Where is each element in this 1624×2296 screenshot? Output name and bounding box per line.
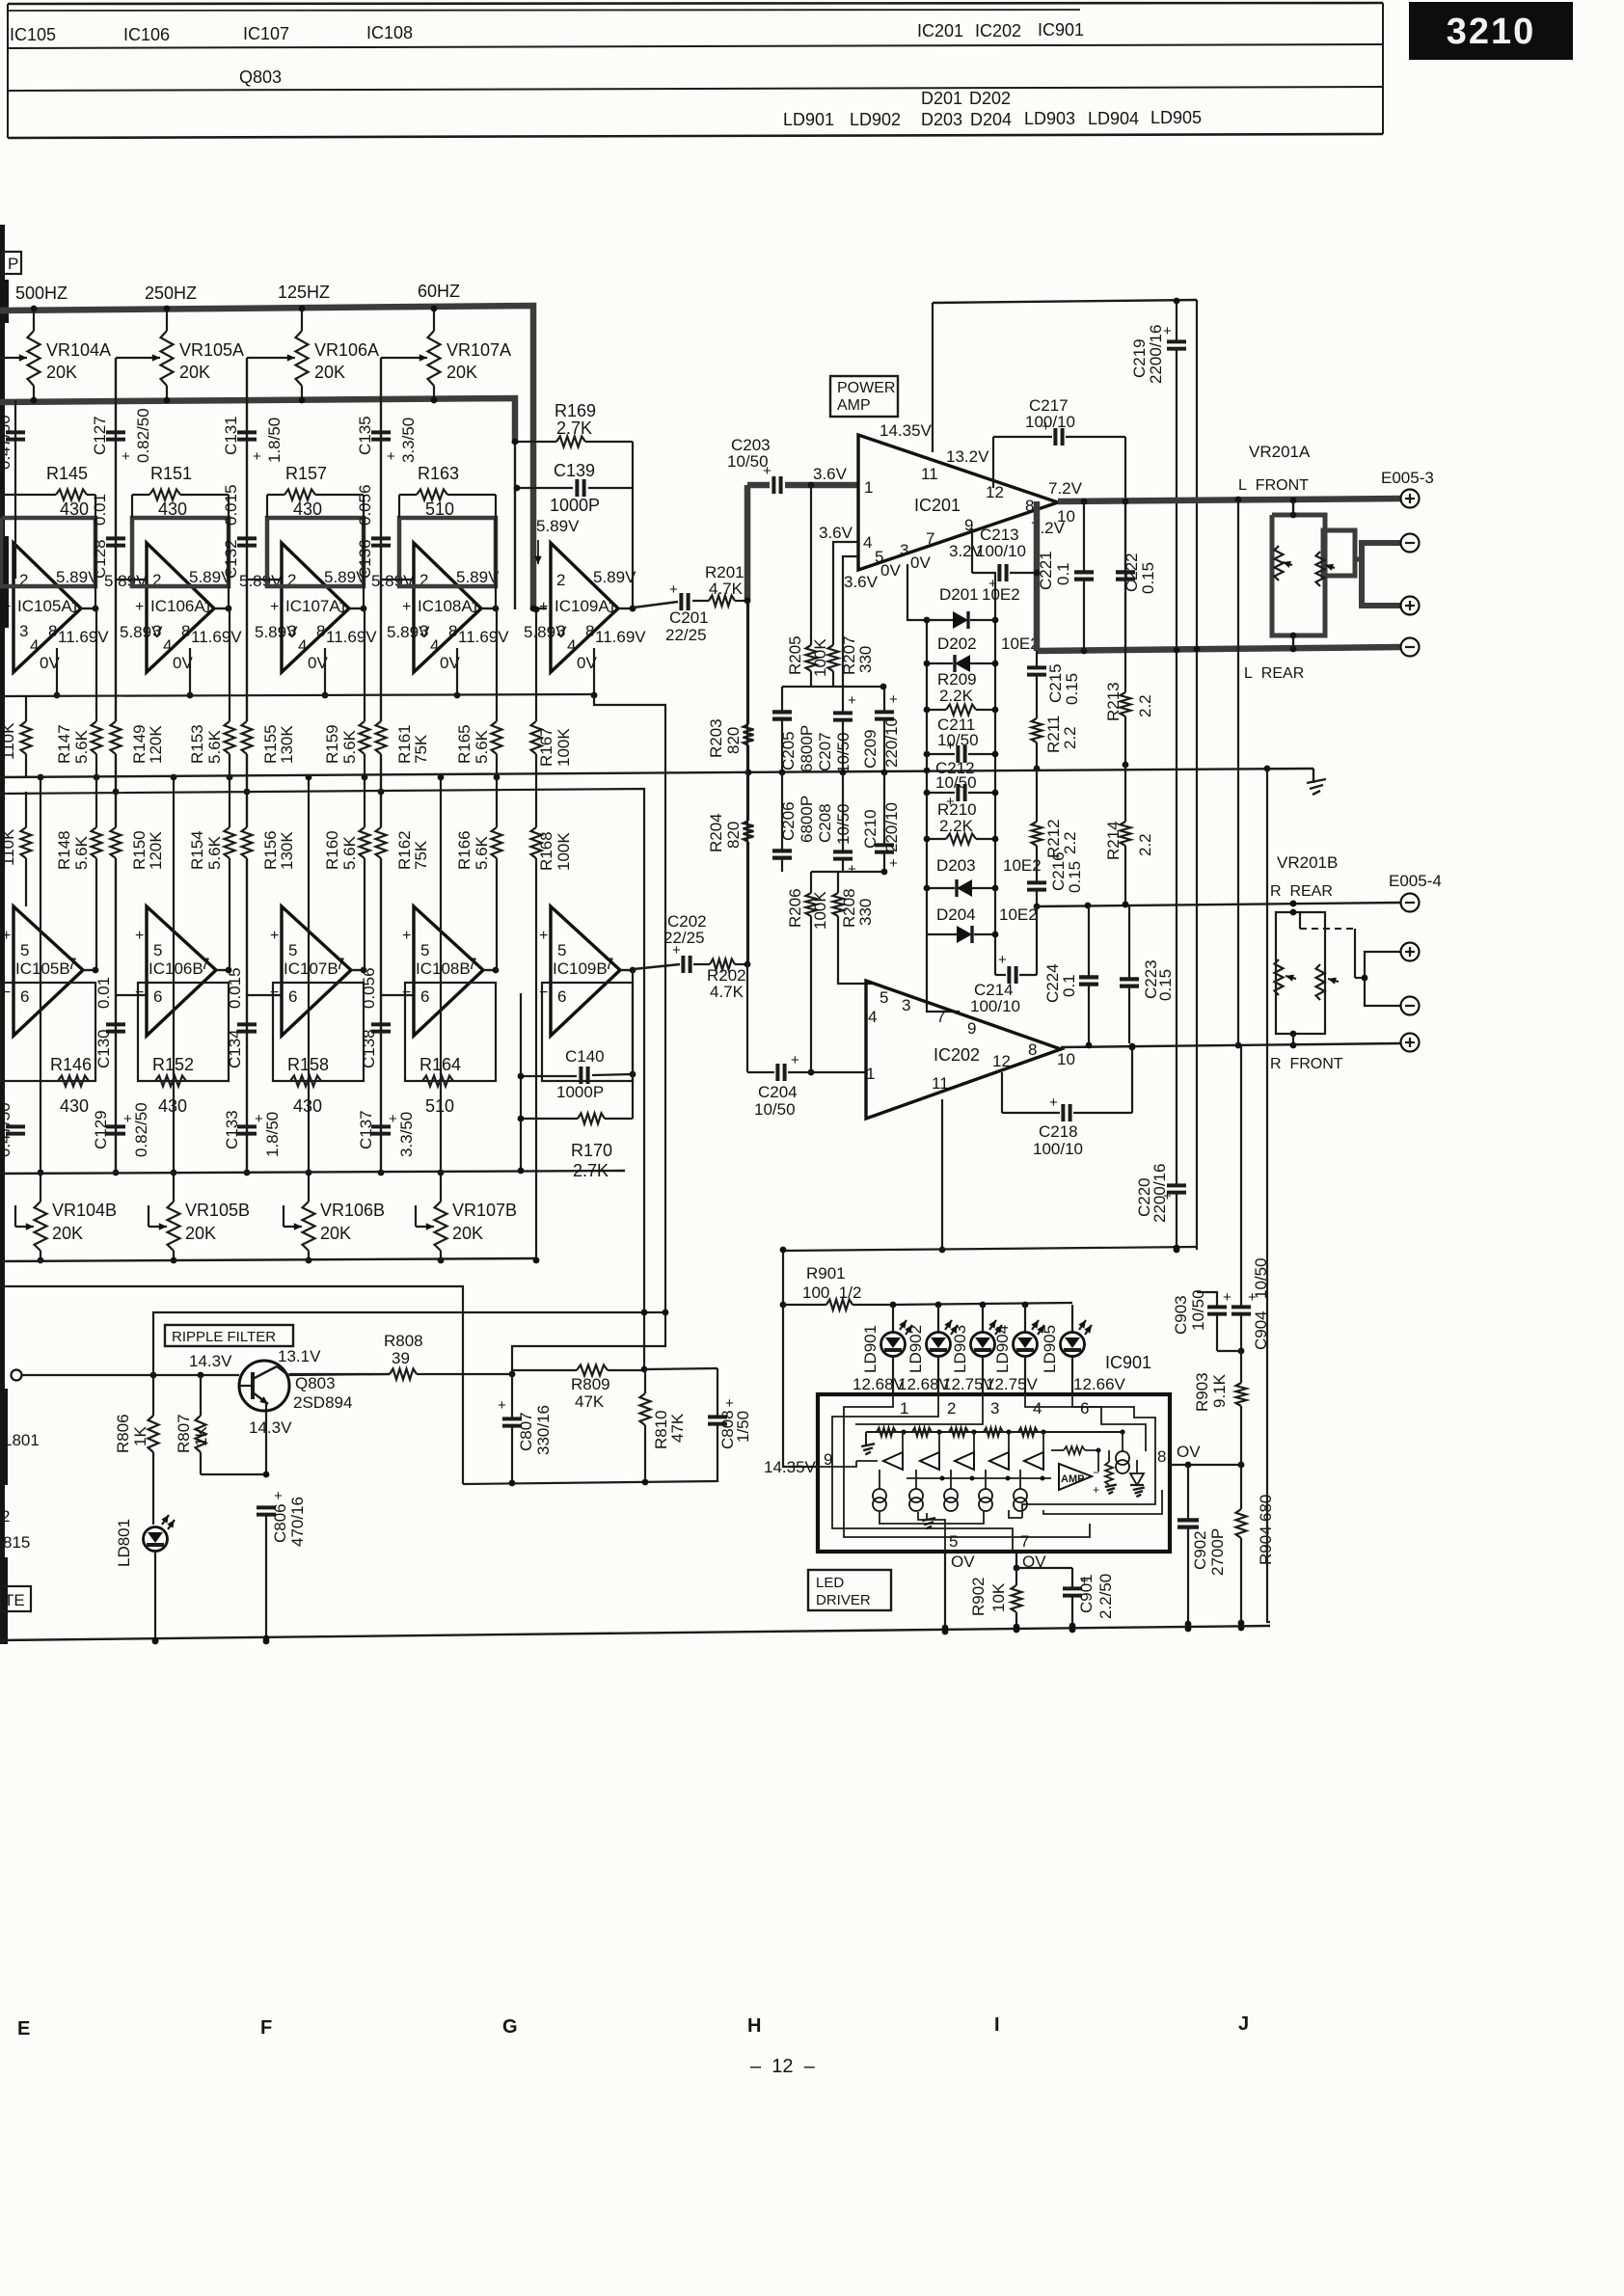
label IC202 — [934, 1045, 980, 1065]
svg-text:C131: C131 — [222, 416, 240, 455]
svg-text:1.8/50: 1.8/50 — [265, 418, 284, 463]
label C127 — [91, 408, 152, 463]
label C135 — [356, 416, 418, 463]
potentiometer VR106B — [303, 1170, 315, 1264]
label C902 — [1191, 1528, 1227, 1576]
svg-text:20K: 20K — [447, 363, 477, 382]
svg-text:20K: 20K — [52, 1224, 83, 1243]
label C137 — [357, 1110, 416, 1157]
potentiometer VR105A — [161, 306, 174, 404]
wire: LED anode bus — [890, 1302, 1072, 1309]
label C215 — [1046, 663, 1081, 705]
svg-text:+: + — [253, 448, 261, 465]
capacitor C213 — [972, 564, 1040, 592]
capacitor C808 — [708, 1368, 734, 1482]
svg-text:10/50: 10/50 — [937, 731, 979, 749]
svg-text:5: 5 — [153, 941, 162, 959]
label IC107 — [243, 24, 289, 43]
terminal ripple input — [12, 1370, 22, 1381]
svg-text:R204: R204 — [707, 813, 725, 852]
wire: feedback loop box IC108B — [405, 983, 496, 1081]
svg-text:5.6K: 5.6K — [340, 835, 359, 870]
svg-text:VR105A: VR105A — [179, 340, 244, 360]
svg-text:IC106B: IC106B — [149, 959, 203, 978]
svg-text:3: 3 — [990, 1399, 999, 1418]
wire: 0V pin IC109A — [591, 648, 598, 698]
wire: output node IC107A — [349, 606, 366, 612]
svg-text:5.89V: 5.89V — [536, 517, 580, 535]
label C224 — [1043, 963, 1078, 1003]
svg-text:H: H — [747, 2015, 761, 2037]
svg-text:C218: C218 — [1039, 1122, 1078, 1141]
label D201 — [939, 585, 1020, 604]
svg-text:8: 8 — [448, 622, 457, 640]
label R806 — [114, 1414, 149, 1453]
label R154 — [188, 830, 224, 870]
svg-text:5.6K: 5.6K — [205, 835, 224, 870]
svg-text:10/50: 10/50 — [935, 773, 977, 792]
label C901 — [1077, 1574, 1115, 1619]
wire: output node IC105A — [81, 606, 98, 612]
resistor R160 — [360, 777, 370, 970]
wire: IC201 pin12 stub — [992, 437, 994, 488]
label C217 — [1025, 396, 1075, 431]
svg-text:LD904: LD904 — [993, 1325, 1012, 1373]
capacitor C211 — [924, 738, 999, 763]
label R161 — [395, 724, 430, 764]
label 3.6V (pin1) — [813, 465, 848, 483]
svg-text:R167: R167 — [537, 727, 555, 767]
capacitor C139 — [514, 442, 636, 611]
resistor R159 — [360, 608, 370, 780]
resistor R167 — [531, 721, 542, 754]
capacitor C132 — [237, 538, 257, 545]
wire: pin8 to OV — [1170, 1462, 1244, 1469]
potentiometer VR104A — [28, 306, 41, 404]
label C134 — [226, 967, 244, 1068]
svg-text:11: 11 — [921, 465, 938, 483]
svg-text:12.66V: 12.66V — [1073, 1375, 1126, 1393]
svg-text:+: + — [848, 861, 856, 878]
svg-text:POWER: POWER — [837, 380, 895, 396]
capacitor C215 — [1027, 651, 1046, 718]
wire: pin2 stub IC107A — [247, 579, 282, 581]
label NOTE (cut) — [0, 1586, 31, 1611]
label C205 — [779, 725, 816, 772]
wire: output node IC109A — [618, 606, 636, 612]
label R807 — [175, 1414, 210, 1453]
resistor R166 — [492, 777, 502, 970]
label 14.35V — [764, 1458, 817, 1476]
wire: IC201 top rail — [933, 298, 1197, 452]
label R201 — [705, 563, 744, 598]
label IC201 voltages — [819, 421, 1083, 591]
label R207 — [840, 635, 875, 675]
svg-text:7: 7 — [936, 1008, 945, 1026]
label R164 — [420, 1055, 461, 1116]
svg-text:C127: C127 — [91, 416, 109, 455]
svg-text:R214: R214 — [1104, 821, 1123, 860]
svg-text:– 12 –: – 12 – — [750, 2056, 816, 2077]
wire: L FRONT output — [1058, 497, 1400, 505]
svg-text:R157: R157 — [285, 464, 327, 483]
svg-text:3: 3 — [902, 996, 910, 1014]
capacitor C807 — [498, 1373, 522, 1484]
svg-text:C128: C128 — [91, 539, 109, 579]
potentiometer VR106A — [296, 306, 309, 404]
wire: feedback loop box IC108A — [399, 518, 496, 586]
svg-text:D203: D203 — [921, 110, 962, 129]
svg-text:8: 8 — [1157, 1447, 1166, 1466]
label C904 — [1252, 1257, 1270, 1350]
wire: IC201 pin4 stub — [833, 542, 858, 645]
wire: EQ lower bus 1216 — [0, 1171, 625, 1174]
label R168 — [537, 831, 573, 871]
svg-text:0.15: 0.15 — [1063, 673, 1081, 705]
svg-text:8: 8 — [1025, 497, 1034, 515]
wire: cap column C131/C132 — [244, 358, 251, 1173]
svg-text:120K: 120K — [147, 831, 165, 870]
capacitor C130 — [106, 1024, 125, 1031]
svg-text:+: + — [1223, 1289, 1232, 1306]
svg-text:100/10: 100/10 — [1025, 413, 1075, 431]
svg-text:VR106B: VR106B — [320, 1201, 385, 1220]
svg-text:F: F — [260, 2017, 272, 2039]
label C140 — [556, 1047, 605, 1101]
led LD801 — [144, 1515, 176, 1644]
label C132 — [222, 484, 240, 579]
svg-text:5: 5 — [288, 941, 297, 959]
svg-text:+: + — [889, 691, 898, 708]
svg-text:2.7K: 2.7K — [556, 419, 592, 438]
svg-text:−: − — [539, 985, 548, 1001]
svg-text:330: 330 — [856, 899, 875, 926]
capacitor C806 — [257, 1488, 283, 1644]
resistor R201 — [692, 596, 747, 607]
svg-text:11: 11 — [932, 1074, 949, 1093]
svg-text:75K: 75K — [412, 840, 430, 870]
capacitor C136 — [371, 538, 391, 545]
label C903 — [1172, 1289, 1207, 1335]
svg-text:AMP: AMP — [837, 397, 871, 414]
svg-text:−: − — [135, 985, 144, 1001]
label R808 — [384, 1332, 423, 1367]
svg-text:C221: C221 — [1037, 551, 1055, 590]
label R209 — [937, 670, 977, 705]
led LD903 — [971, 1305, 1003, 1394]
label IC106A pins/voltages — [135, 568, 242, 672]
label R145 — [46, 464, 89, 519]
wire: cap column C135/C136 — [378, 358, 385, 1173]
svg-text:IC202: IC202 — [975, 21, 1021, 41]
svg-text:14.35V: 14.35V — [880, 421, 933, 440]
label R155 — [261, 724, 296, 764]
svg-text:LD801: LD801 — [115, 1519, 133, 1567]
wire: rail x=556 — [533, 607, 540, 1264]
potentiometer VR107B — [435, 1170, 447, 1264]
svg-text:0.47/50: 0.47/50 — [0, 415, 14, 470]
svg-text:R160: R160 — [323, 830, 341, 870]
wire: pin2 stub IC106A — [116, 579, 147, 581]
label IC107B pins — [270, 928, 344, 1006]
svg-text:−: − — [270, 985, 279, 1001]
wire: wiper VR105B — [149, 1205, 167, 1230]
label IC105B pins — [2, 928, 76, 1006]
wire: R206/R208 top rail — [811, 869, 887, 876]
label D203 — [921, 110, 962, 129]
resistor R168 — [531, 827, 542, 858]
svg-text:2.7K: 2.7K — [573, 1161, 609, 1180]
svg-text:20K: 20K — [320, 1224, 351, 1243]
capacitor C137 — [371, 1111, 397, 1134]
svg-text:P: P — [8, 255, 18, 273]
wire: R203 rail down to C204 — [746, 601, 748, 1072]
op-amp IC105B — [14, 906, 83, 1036]
label R160 — [323, 830, 359, 870]
label D204 — [970, 110, 1012, 129]
label R REAR — [1270, 883, 1333, 900]
capacitor C217 — [993, 419, 1128, 504]
svg-text:R165: R165 — [455, 724, 474, 764]
svg-text:IC105: IC105 — [10, 25, 56, 44]
potentiometer VR105B — [168, 1170, 180, 1264]
svg-text:R808: R808 — [384, 1332, 423, 1350]
label R170 — [571, 1141, 612, 1180]
label C202 — [663, 912, 707, 947]
svg-text:5: 5 — [949, 1532, 958, 1551]
label IC201 — [914, 496, 961, 515]
label 0.47/50 lower — [0, 1102, 14, 1157]
capacitor C140 — [518, 1067, 636, 1084]
wire: VR201B to terminals — [1355, 952, 1400, 1006]
svg-text:R901: R901 — [806, 1264, 846, 1283]
label D203 — [936, 856, 1042, 875]
svg-text:9: 9 — [967, 1019, 976, 1038]
label Q803 — [239, 68, 282, 87]
svg-text:R206: R206 — [786, 888, 804, 928]
svg-text:+: + — [725, 1395, 734, 1412]
svg-text:2.2: 2.2 — [1061, 726, 1079, 749]
svg-text:20K: 20K — [179, 363, 210, 382]
label IC106 — [123, 25, 170, 44]
svg-text:8: 8 — [585, 622, 594, 640]
wire: ladder bottom stub to IC202 — [927, 934, 960, 1012]
op-amp IC106A — [147, 543, 214, 672]
svg-text:0.01: 0.01 — [91, 494, 109, 526]
svg-text:C135: C135 — [356, 416, 374, 455]
wire: pin5 down — [942, 1552, 949, 1634]
junction cap column bottom — [113, 1170, 120, 1176]
resistor R147 — [92, 608, 102, 780]
page number box 3210 — [1409, 2, 1573, 60]
resistor R156 — [242, 827, 253, 858]
junction cap column bottom — [244, 1170, 251, 1176]
label C136 — [356, 484, 374, 579]
capacitor 0.47/50 upper — [6, 400, 25, 579]
svg-text:13.2V: 13.2V — [946, 447, 989, 466]
svg-text:5.89V: 5.89V — [387, 623, 430, 641]
svg-text:C136: C136 — [356, 539, 374, 579]
svg-text:430: 430 — [293, 500, 322, 519]
svg-text:+: + — [270, 928, 279, 944]
svg-text:+: + — [389, 1111, 397, 1127]
label R158 — [287, 1055, 329, 1116]
label VR105A — [179, 340, 244, 382]
svg-text:4: 4 — [567, 636, 576, 655]
label R163 — [418, 464, 459, 519]
label C131 — [222, 416, 284, 463]
svg-text:0.056: 0.056 — [360, 967, 378, 1009]
label C133 — [223, 1110, 282, 1157]
capacitor C210 — [875, 772, 898, 872]
svg-text:R806: R806 — [114, 1414, 132, 1453]
svg-text:+: + — [387, 448, 395, 465]
label VR105B — [185, 1201, 250, 1243]
svg-text:+: + — [998, 952, 1007, 968]
svg-text:C201: C201 — [669, 608, 709, 627]
svg-text:LD901: LD901 — [861, 1325, 880, 1373]
wire: collector wire to R808 — [289, 1374, 390, 1375]
resistor R165 — [492, 608, 502, 780]
label L801 — [3, 1431, 40, 1449]
svg-text:5.6K: 5.6K — [72, 835, 91, 870]
svg-text:IC105B: IC105B — [15, 959, 70, 978]
svg-text:0.82/50: 0.82/50 — [134, 408, 152, 463]
label C219 — [1130, 325, 1165, 384]
svg-text:5: 5 — [420, 941, 429, 959]
svg-text:2: 2 — [556, 571, 565, 589]
resistor R158 — [290, 1076, 321, 1087]
capacitor C205 — [772, 687, 811, 775]
svg-text:IC108: IC108 — [366, 23, 413, 42]
svg-text:6: 6 — [420, 987, 429, 1006]
wire: rail x=1241 — [1196, 300, 1198, 1250]
wire: ripple top link — [153, 1310, 668, 1375]
capacitor C212 — [924, 784, 999, 810]
label C218 — [1033, 1122, 1083, 1158]
wire: rail x=1285 — [1237, 500, 1239, 1045]
svg-text:Q803: Q803 — [295, 1374, 336, 1392]
svg-text:130K: 130K — [278, 725, 296, 764]
svg-text:100K: 100K — [555, 728, 573, 767]
wire: output node IC106A — [214, 606, 231, 612]
svg-text:4: 4 — [163, 636, 172, 655]
svg-text:R FRONT: R FRONT — [1270, 1056, 1343, 1072]
wire: IC202 pin11 rail — [939, 1099, 946, 1253]
label R203 — [707, 718, 743, 758]
resistor R901 — [783, 1300, 891, 1310]
label R904 — [1257, 1495, 1275, 1565]
capacitor C209 — [875, 687, 898, 775]
label VR106A — [314, 340, 379, 382]
svg-text:2: 2 — [947, 1399, 956, 1418]
svg-text:2.2K: 2.2K — [939, 687, 974, 705]
potentiometer VR201B network — [1275, 901, 1356, 1049]
svg-text:C137: C137 — [357, 1110, 375, 1149]
label LD901 — [783, 110, 834, 129]
label 13.1V — [278, 1347, 321, 1365]
svg-text:680: 680 — [1257, 1495, 1275, 1522]
resistor R211 — [1032, 718, 1042, 771]
svg-text:6: 6 — [153, 987, 162, 1006]
label IC105A pins/voltages — [2, 568, 109, 672]
label IC202 — [975, 21, 1021, 41]
wire: header top border line — [8, 3, 1383, 11]
wire: IC109B output column — [632, 970, 634, 1074]
label C138 — [360, 967, 378, 1068]
svg-text:2200/16: 2200/16 — [1150, 1164, 1169, 1223]
svg-text:20K: 20K — [314, 363, 345, 382]
amp inside IC901 — [1051, 1446, 1101, 1497]
svg-text:R148: R148 — [55, 830, 73, 870]
resistor R169 — [512, 437, 633, 447]
svg-text:5.89V: 5.89V — [255, 623, 298, 641]
svg-text:5.89V: 5.89V — [120, 623, 163, 641]
svg-text:TE: TE — [4, 1591, 25, 1609]
svg-text:IC107A: IC107A — [285, 597, 340, 615]
svg-text:R904: R904 — [1257, 1526, 1275, 1565]
svg-text:IC108A: IC108A — [418, 597, 473, 615]
resistor R204 — [744, 772, 754, 964]
resistor R209 — [924, 705, 999, 716]
label R157 — [285, 464, 327, 519]
current sources inside IC901 — [873, 1470, 1027, 1511]
capacitor C218 — [1002, 1094, 1132, 1121]
terminal E005-4 plus2 — [1401, 1034, 1420, 1052]
svg-text:1K: 1K — [131, 1426, 149, 1446]
resistor R155 — [242, 721, 253, 754]
svg-text:R159: R159 — [323, 724, 341, 764]
label grid G — [502, 2016, 518, 2038]
wire: header row line 2 — [8, 44, 1383, 48]
resistor R808 — [289, 1369, 515, 1380]
svg-text:110K: 110K — [0, 828, 17, 866]
capacitor C903 — [1197, 1289, 1232, 1351]
svg-text:7.2V: 7.2V — [1048, 479, 1083, 498]
svg-text:430: 430 — [158, 500, 187, 519]
label D204 — [936, 905, 1038, 924]
resistor R902 — [1012, 1568, 1022, 1633]
resistor R214 — [1121, 765, 1131, 907]
label R212 — [1044, 819, 1079, 858]
svg-text:7: 7 — [1020, 1532, 1029, 1551]
svg-text:R902: R902 — [969, 1577, 988, 1616]
svg-text:D202: D202 — [969, 89, 1011, 108]
potentiometer VR104B — [35, 1170, 47, 1264]
capacitor C204 — [747, 1052, 866, 1081]
svg-text:1000P: 1000P — [550, 496, 600, 515]
wire: ground (main) — [1307, 769, 1326, 795]
svg-text:22/25: 22/25 — [665, 626, 707, 644]
label R147 — [55, 724, 91, 764]
wire: R901 feed — [780, 1247, 787, 1309]
svg-text:20K: 20K — [46, 363, 77, 382]
label C216 — [1049, 851, 1084, 893]
label IC108 — [366, 23, 413, 42]
wire: R205/R207 bottom rail — [811, 684, 886, 690]
capacitor C201 — [634, 581, 689, 610]
resistor R202 — [693, 959, 750, 970]
label 815 — [3, 1533, 30, 1552]
svg-text:VR107B: VR107B — [452, 1201, 517, 1220]
capacitor C134 — [237, 1024, 257, 1031]
wire: bottom bus — [0, 1620, 1270, 1644]
svg-text:10K: 10K — [989, 1582, 1008, 1612]
svg-text:LD905: LD905 — [1041, 1325, 1059, 1373]
svg-text:0.01: 0.01 — [95, 977, 113, 1009]
capacitor C224 — [1079, 905, 1098, 1048]
svg-text:11.69V: 11.69V — [595, 628, 646, 646]
